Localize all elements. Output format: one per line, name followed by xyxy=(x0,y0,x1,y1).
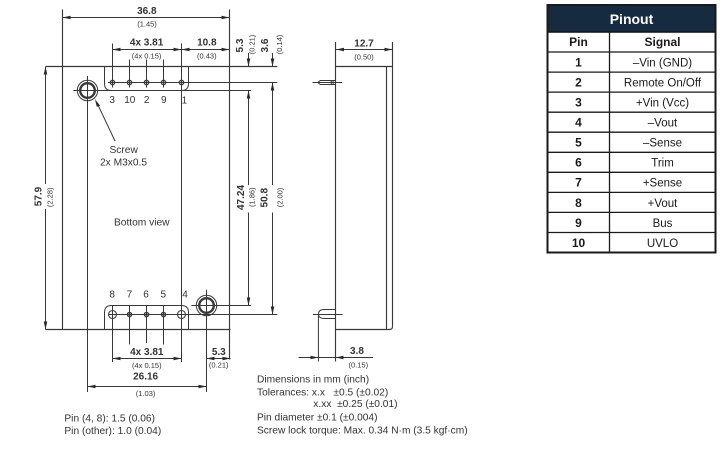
svg-text:+Vin (Vcc): +Vin (Vcc) xyxy=(636,98,689,110)
svg-text:+Sense: +Sense xyxy=(643,178,682,190)
svg-text:2: 2 xyxy=(144,95,150,106)
svg-text:47.24: 47.24 xyxy=(236,185,247,210)
svg-text:5: 5 xyxy=(575,136,582,150)
svg-text:26.16: 26.16 xyxy=(133,372,158,383)
svg-text:4: 4 xyxy=(182,290,188,301)
svg-text:Remote On/Off: Remote On/Off xyxy=(624,78,702,90)
svg-text:6: 6 xyxy=(575,156,582,170)
package bottom edge xyxy=(46,329,231,331)
dim 26.16 xyxy=(88,386,207,388)
svg-text:4x 3.81: 4x 3.81 xyxy=(130,37,164,48)
svg-text:1: 1 xyxy=(575,55,582,69)
svg-text:57.9: 57.9 xyxy=(34,186,45,206)
pin extension lines bottom xyxy=(112,306,114,363)
svg-text:10: 10 xyxy=(572,236,586,250)
package top edge xyxy=(46,66,278,68)
svg-text:8: 8 xyxy=(575,196,582,210)
package left edge (ext up) xyxy=(62,10,64,330)
dim 4x 3.81 (bottom) xyxy=(113,358,182,360)
dim 5.3 (bottom) xyxy=(207,358,231,360)
svg-text:Bus: Bus xyxy=(653,218,673,230)
svg-text:Pin (other): 1.0 (0.04): Pin (other): 1.0 (0.04) xyxy=(64,426,161,437)
pin extension lines top xyxy=(112,44,114,88)
top pin center line xyxy=(108,82,277,84)
svg-text:(2.00): (2.00) xyxy=(276,187,285,207)
dim 36.8 xyxy=(63,17,230,19)
svg-text:3: 3 xyxy=(109,95,115,106)
svg-text:Pin (4, 8): 1.5 (0.06): Pin (4, 8): 1.5 (0.06) xyxy=(64,413,155,424)
svg-text:(1.03): (1.03) xyxy=(136,389,156,398)
dim 10.8 xyxy=(182,49,230,51)
dim 12.7 xyxy=(336,49,393,51)
svg-text:50.8: 50.8 xyxy=(259,188,270,208)
pin1/pin4 long extension line xyxy=(181,44,183,363)
svg-text:(1.45): (1.45) xyxy=(137,19,157,28)
svg-text:3: 3 xyxy=(575,96,582,110)
svg-text:Screw lock torque: Max. 0.34 N: Screw lock torque: Max. 0.34 N·m (3.5 kg… xyxy=(257,425,468,436)
svg-text:9: 9 xyxy=(161,95,167,106)
body xyxy=(335,42,337,362)
svg-text:12.7: 12.7 xyxy=(354,39,374,50)
svg-text:6: 6 xyxy=(143,290,149,301)
svg-text:(0.50): (0.50) xyxy=(354,53,374,62)
svg-text:5.3: 5.3 xyxy=(212,347,226,358)
svg-text:(4x 0.15): (4x 0.15) xyxy=(132,51,162,60)
dim 3.6 / 50.8 (vertical line 2) xyxy=(272,53,274,67)
screw2 bottom-right xyxy=(196,295,216,315)
bottom pins (8,7,6,5,4) xyxy=(109,311,186,319)
svg-text:10.8: 10.8 xyxy=(197,37,217,48)
dim 5.3 / 47.24 (vertical line 1) xyxy=(248,53,250,67)
top pin-header rounded rect xyxy=(105,67,189,91)
dim 57.9 (vertical) xyxy=(45,67,47,185)
svg-text:Pin: Pin xyxy=(569,35,588,49)
svg-text:(4x 0.15): (4x 0.15) xyxy=(132,361,162,370)
dim 4x 3.81 (top) xyxy=(113,49,182,51)
svg-text:Dimensions in mm (inch): Dimensions in mm (inch) xyxy=(257,375,369,386)
svg-text:–Vout: –Vout xyxy=(648,118,678,130)
top pins (3,10,2,9,1) xyxy=(110,80,183,84)
dim 3.8 xyxy=(299,357,374,359)
package right edge (ext up and down) xyxy=(229,10,231,360)
svg-text:(1.86): (1.86) xyxy=(248,187,257,207)
screw1 top-left xyxy=(77,80,97,100)
svg-text:Pin diameter ±0.1 (±0.004): Pin diameter ±0.1 (±0.004) xyxy=(257,413,377,424)
svg-text:4x 3.81: 4x 3.81 xyxy=(130,347,164,358)
svg-text:2x M3x0.5: 2x M3x0.5 xyxy=(100,158,147,169)
svg-text:(0.43): (0.43) xyxy=(197,51,217,60)
svg-text:(0.15): (0.15) xyxy=(349,361,369,370)
svg-text:UVLO: UVLO xyxy=(647,238,678,250)
svg-text:Bottom view: Bottom view xyxy=(114,218,170,229)
svg-text:–Sense: –Sense xyxy=(643,138,682,150)
svg-text:Tolerances: x.x ±0.5 (±0.02): Tolerances: x.x ±0.5 (±0.02) xyxy=(257,387,388,398)
svg-text:5: 5 xyxy=(161,290,167,301)
svg-text:3.8: 3.8 xyxy=(350,346,364,357)
svg-text:Signal: Signal xyxy=(644,35,680,49)
side screw (bottom) xyxy=(317,315,319,362)
bottom pin-header rounded rect xyxy=(105,306,189,330)
svg-text:7: 7 xyxy=(575,176,582,190)
svg-text:7: 7 xyxy=(127,290,133,301)
svg-text:8: 8 xyxy=(109,290,115,301)
svg-text:+Vout: +Vout xyxy=(648,198,679,210)
svg-text:x.xx ±0.25 (±0.01): x.xx ±0.25 (±0.01) xyxy=(313,399,397,410)
svg-text:36.8: 36.8 xyxy=(137,6,157,17)
svg-text:(0.21): (0.21) xyxy=(209,360,229,369)
svg-text:Pinout: Pinout xyxy=(610,11,654,27)
side pin xyxy=(313,82,343,84)
svg-text:1: 1 xyxy=(182,95,188,106)
svg-text:(0.21): (0.21) xyxy=(247,34,256,54)
svg-text:–Vin (GND): –Vin (GND) xyxy=(633,57,692,69)
svg-text:(0.14): (0.14) xyxy=(275,34,284,54)
svg-text:Screw: Screw xyxy=(110,145,139,156)
svg-text:10: 10 xyxy=(124,95,136,106)
svg-text:4: 4 xyxy=(575,116,582,130)
svg-text:5.3: 5.3 xyxy=(235,38,246,52)
bottom pin center line xyxy=(108,314,277,316)
svg-text:3.6: 3.6 xyxy=(260,38,271,52)
svg-text:Trim: Trim xyxy=(651,158,674,170)
svg-text:(2.28): (2.28) xyxy=(45,187,54,207)
svg-text:9: 9 xyxy=(575,216,582,230)
svg-text:2: 2 xyxy=(575,76,582,90)
